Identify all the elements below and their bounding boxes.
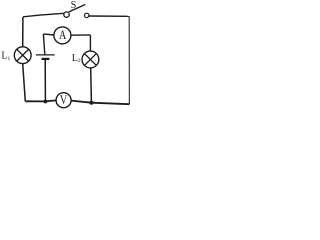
- wire bottom-left segment: [25, 100, 56, 101]
- wire battery bottom lead: [44, 60, 46, 102]
- battery short plate: [42, 58, 50, 60]
- ammeter A: [54, 27, 71, 44]
- svg-text:V: V: [60, 94, 67, 107]
- wire L2 top lead: [89, 35, 91, 51]
- lamp L1: [14, 47, 31, 64]
- wire bottom-right segment: [71, 101, 129, 105]
- wire ammeter left lead: [43, 34, 54, 35]
- wire L2 bottom lead: [90, 68, 93, 103]
- battery long plate: [36, 54, 55, 56]
- wire left edge upper: [22, 17, 24, 47]
- node junction battery-bottom: [44, 100, 48, 104]
- switch S left terminal: [64, 12, 69, 17]
- voltmeter V: [56, 93, 71, 108]
- svg-text:A: A: [59, 29, 67, 42]
- wire right edge: [128, 16, 130, 104]
- wire ammeter right lead: [71, 34, 91, 36]
- switch S blade: [69, 5, 86, 12]
- wire top-left segment: [23, 13, 64, 16]
- wire top-right segment: [89, 15, 129, 17]
- node junction L2-bottom: [89, 101, 93, 105]
- svg-text:S: S: [71, 0, 77, 11]
- lamp L2: [82, 51, 99, 68]
- wire left edge lower: [23, 64, 26, 102]
- wire battery top lead: [43, 34, 44, 55]
- switch S right terminal: [85, 13, 89, 17]
